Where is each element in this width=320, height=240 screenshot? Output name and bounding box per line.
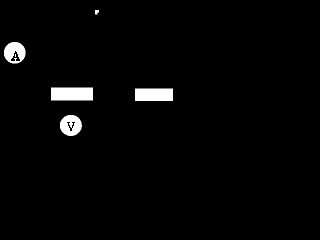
wire voltmeter branch up <box>109 94 111 125</box>
resistor R1 <box>51 88 93 101</box>
wire voltmeter branch right <box>81 124 110 126</box>
wire right vertical <box>171 12 173 94</box>
wire voltmeter branch bottom <box>40 124 60 126</box>
wire to R1 <box>14 93 51 95</box>
junction node dot <box>95 10 99 15</box>
wire top-left horizontal <box>14 11 95 13</box>
wire R1 to R2 <box>93 93 135 95</box>
wire voltmeter branch left <box>39 94 41 125</box>
wire left vertical <box>13 12 15 42</box>
voltmeter V <box>60 115 82 136</box>
wire left lower vertical <box>13 63 15 94</box>
wire top-right horizontal <box>99 11 172 13</box>
ammeter A <box>4 42 26 64</box>
resistor R2 <box>135 89 173 102</box>
